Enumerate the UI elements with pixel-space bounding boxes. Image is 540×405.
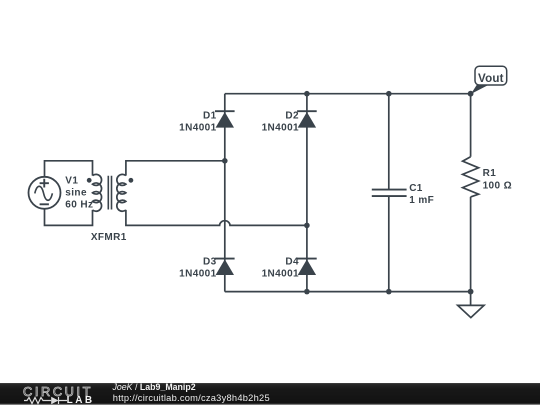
- svg-text:60 Hz: 60 Hz: [65, 199, 93, 210]
- svg-text:1N4001: 1N4001: [262, 269, 299, 280]
- svg-text:XFMR1: XFMR1: [91, 232, 127, 243]
- svg-text:1N4001: 1N4001: [179, 269, 216, 280]
- svg-text:1 mF: 1 mF: [409, 195, 434, 206]
- svg-text:100 Ω: 100 Ω: [483, 181, 512, 192]
- svg-text:sine: sine: [65, 187, 87, 198]
- svg-text:D3: D3: [203, 257, 217, 268]
- svg-text:D4: D4: [285, 257, 299, 268]
- svg-text:V1: V1: [65, 175, 78, 186]
- svg-text:R1: R1: [483, 168, 497, 179]
- svg-text:Vout: Vout: [478, 72, 504, 85]
- svg-text:D1: D1: [203, 111, 217, 122]
- svg-text:D2: D2: [285, 111, 299, 122]
- svg-text:1N4001: 1N4001: [179, 123, 216, 134]
- svg-text:C1: C1: [409, 183, 423, 194]
- svg-text:1N4001: 1N4001: [262, 123, 299, 134]
